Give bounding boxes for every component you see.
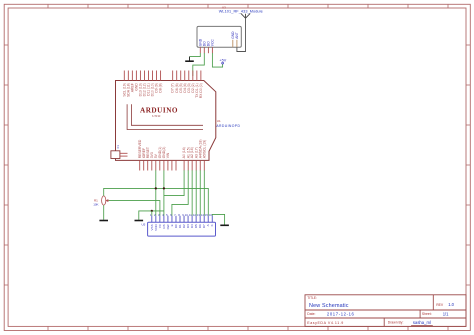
wire arduino GND pin down to gnd line: [163, 170, 165, 215]
wire arduino A0 to LCD RS staircase: [164, 170, 184, 195]
svg-text:15: 15: [205, 213, 208, 217]
svg-text:2017-12-16: 2017-12-16: [327, 311, 355, 316]
potentiometer R1 body: [102, 196, 106, 205]
wire +5V rail from pot top across to LCD D7: [104, 188, 209, 215]
wire module VCC to +5V: [212, 53, 222, 67]
title block outline: [305, 295, 466, 327]
svg-text:ARDUINOPD: ARDUINOPD: [216, 124, 240, 128]
svg-text:12: 12: [193, 213, 196, 217]
ground symbol below pot: [99, 220, 108, 222]
arduino inner board art line outer: [127, 104, 203, 129]
connector X1 on arduino left edge: [111, 151, 120, 159]
wire module DO to arduino D2: [193, 53, 205, 76]
svg-text:14: 14: [201, 213, 204, 217]
svg-text:+5V: +5V: [219, 58, 226, 62]
frame: zone ticks top: [48, 4, 448, 8]
wire pot bottom to ground: [103, 205, 105, 220]
wire ground line to ground symbol: [139, 211, 164, 220]
wire arduino A2 to LCD D3: [191, 170, 193, 215]
ground symbol below gnd line: [135, 220, 144, 222]
wire arduino A1 to LCD E staircase: [172, 170, 188, 215]
RF module pin DO stub: [203, 47, 205, 53]
LCD pin numbers 1-16: [150, 213, 212, 217]
arduino bottom pin stubs: [140, 160, 205, 170]
wire LCD A pin to right ground: [212, 214, 224, 224]
LCD U5 body: [148, 222, 216, 236]
svg-text:sasha_ml: sasha_ml: [413, 320, 431, 325]
svg-text:1/1: 1/1: [443, 311, 449, 316]
svg-text:REV: REV: [436, 303, 444, 307]
svg-text:10K: 10K: [93, 203, 98, 207]
title block underline under sasha_ml: [411, 324, 433, 326]
frame: zone ticks bottom: [48, 326, 448, 330]
+5V net flag: [219, 58, 226, 64]
svg-text:1.0: 1.0: [448, 302, 454, 307]
junction dot 5V rail at GND leg crossing: [163, 187, 165, 189]
wire arduino A5 to LCD D6: [203, 170, 205, 215]
RF module pin GND (right) stub: [232, 40, 234, 47]
wire VSS branch down to LCD VSS: [151, 211, 153, 216]
svg-text:U5: U5: [142, 223, 146, 227]
frame: zone ticks left: [4, 45, 8, 285]
RF module pin ANT stub: [236, 40, 238, 47]
svg-text:Drawn By:: Drawn By:: [388, 320, 404, 324]
svg-text:EasyEDA V4.11.9: EasyEDA V4.11.9: [307, 321, 343, 325]
junction dot 5V rail at VDD riser: [155, 187, 157, 189]
connector X1 pin 2: [120, 155, 128, 157]
svg-text:13: 13: [197, 213, 200, 217]
arduino top pin labels: [122, 83, 203, 99]
LCD pin labels: [150, 223, 214, 230]
antenna symbol: [241, 13, 250, 18]
svg-text:16: 16: [209, 213, 212, 217]
svg-text:ANT: ANT: [235, 32, 239, 39]
frame: zone ticks right: [466, 45, 470, 285]
svg-text:VCC: VCC: [211, 39, 215, 47]
ground symbol right of LCD: [220, 224, 229, 226]
wire arduino 5V pin down to LCD VDD: [155, 170, 157, 215]
svg-text:D8 (8): D8 (8): [159, 83, 163, 92]
wire arduino A3 to LCD D4: [195, 170, 197, 215]
svg-text:11: 11: [189, 213, 192, 217]
ground symbol near module: [185, 57, 194, 62]
svg-text:TITLE:: TITLE:: [307, 296, 317, 300]
svg-text:UNO: UNO: [152, 114, 161, 118]
RF module pin VCC stub: [211, 47, 213, 53]
svg-text:VIN: VIN: [166, 152, 170, 158]
svg-text:10: 10: [185, 213, 188, 217]
LCD pin stubs: [152, 216, 212, 223]
potentiometer R1 wiper arrow: [106, 200, 109, 202]
svg-text:WL101_RF_433_Module: WL101_RF_433_Module: [219, 9, 263, 13]
wire arduino A4 to LCD D5: [199, 170, 201, 215]
svg-text:U1: U1: [217, 119, 221, 123]
RF module pin DO2 stub: [207, 47, 209, 53]
wire module GND to ground: [190, 53, 201, 57]
wire pot wiper to LCD V0: [109, 201, 160, 216]
svg-text:X1: X1: [116, 145, 120, 149]
svg-text:RX D0 (0): RX D0 (0): [199, 83, 203, 98]
svg-text:Date:: Date:: [307, 312, 315, 316]
wire antenna to ANT pin: [237, 18, 246, 51]
arduino inner board art line inner: [131, 104, 203, 125]
arduino top pin stubs: [124, 71, 201, 81]
connector X1 pin 1: [120, 152, 128, 154]
RF module pin GND (left) stub: [199, 47, 201, 53]
svg-text:New Schematic: New Schematic: [309, 303, 349, 309]
junction dot gnd line at VSS branch: [151, 210, 153, 212]
op part: arduino U1 outline: [116, 81, 216, 161]
svg-text:Sheet:: Sheet:: [422, 312, 432, 316]
RF module U3 body: [197, 26, 241, 47]
svg-text:A5/SCL (19): A5/SCL (19): [202, 140, 206, 159]
arduino bottom pin labels: [138, 139, 207, 158]
